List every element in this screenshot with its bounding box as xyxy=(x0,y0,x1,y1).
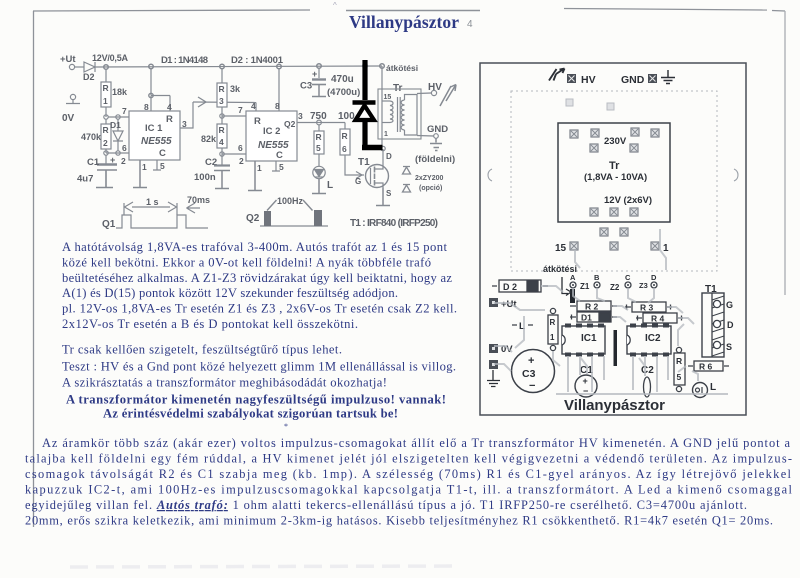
svg-text:T1 : IRF840 (IRFP250): T1 : IRF840 (IRFP250) xyxy=(350,218,438,229)
ground symbol top xyxy=(661,70,675,84)
svg-text:A(1) és D(15) pontok között 12: A(1) és D(15) pontok között 12V szekunde… xyxy=(62,286,398,300)
svg-text:D 2: D 2 xyxy=(503,282,517,292)
svg-text:L: L xyxy=(327,180,333,191)
svg-text:D1 : 1N4148: D1 : 1N4148 xyxy=(161,55,208,66)
svg-text:12V/0,5A: 12V/0,5A xyxy=(92,53,129,63)
svg-text:+: + xyxy=(583,376,588,386)
svg-text:(földelni): (földelni) xyxy=(415,154,455,165)
LED L xyxy=(318,154,320,166)
svg-text:3: 3 xyxy=(219,96,224,106)
svg-text:R: R xyxy=(550,318,556,327)
svg-text:NE555: NE555 xyxy=(141,136,172,147)
svg-text:+: + xyxy=(528,355,534,367)
svg-text:GND: GND xyxy=(621,74,645,86)
pin 1 ground IC1 xyxy=(133,160,147,188)
svg-text:R: R xyxy=(219,84,225,94)
capacitor C1 xyxy=(105,155,107,164)
svg-text:3: 3 xyxy=(298,111,303,121)
svg-text:82k: 82k xyxy=(201,134,217,144)
svg-text:15: 15 xyxy=(555,243,567,254)
svg-text:+Ut: +Ut xyxy=(501,299,517,310)
svg-text:R: R xyxy=(219,125,225,135)
svg-text:12V (2x6V): 12V (2x6V) xyxy=(604,195,652,206)
diode hand-drawn annotation xyxy=(353,60,383,148)
svg-text:6: 6 xyxy=(122,143,127,153)
svg-text:R: R xyxy=(166,114,173,125)
svg-text:0V: 0V xyxy=(62,113,75,124)
transformer Tr footprint xyxy=(558,123,670,222)
wire jumper between ICs xyxy=(614,330,618,366)
svg-text:D: D xyxy=(651,273,657,282)
svg-text:100: 100 xyxy=(338,111,355,122)
PCB board outline xyxy=(480,63,746,415)
svg-text:2: 2 xyxy=(239,156,244,166)
svg-text:csomagok távolságát R2 és C1 s: csomagok távolságát R2 és C1 szabja meg … xyxy=(25,467,792,481)
svg-text:Villanypásztor: Villanypásztor xyxy=(349,12,459,32)
svg-text:pl. 12V-os 1,8VA-es Tr esetén: pl. 12V-os 1,8VA-es Tr esetén Z1 és Z3 ,… xyxy=(62,302,457,316)
svg-text:A hatótávolság 1,8VA-es trafóv: A hatótávolság 1,8VA-es trafóval 3-400m.… xyxy=(62,240,448,254)
svg-text:beültetéséhez alkalmas. A Z1-: beültetéséhez alkalmas. A Z1-Z3 rövidzár… xyxy=(62,271,452,285)
node between R3/R4 xyxy=(221,107,223,124)
svg-text:C1: C1 xyxy=(87,157,100,168)
pin 5 stub IC2 xyxy=(272,161,280,171)
svg-text:D1: D1 xyxy=(581,313,592,323)
svg-text:C3: C3 xyxy=(300,81,312,92)
svg-text:4u7: 4u7 xyxy=(77,174,93,185)
resistor R5 footprint xyxy=(676,347,681,352)
svg-text:Az érintésvédelmi szabályokat: Az érintésvédelmi szabályokat szigorúan … xyxy=(103,407,398,421)
ground under LED xyxy=(312,179,326,194)
wire +V rail xyxy=(95,66,382,67)
svg-text:T1: T1 xyxy=(358,157,370,168)
svg-text:R 4: R 4 xyxy=(651,314,665,324)
svg-text:470k: 470k xyxy=(81,132,102,142)
svg-text:6: 6 xyxy=(342,144,347,154)
svg-text:S: S xyxy=(386,189,392,198)
svg-text:1: 1 xyxy=(103,96,108,106)
svg-text:7: 7 xyxy=(238,105,243,115)
node rail junctions xyxy=(104,65,109,70)
svg-text:C: C xyxy=(276,150,283,161)
svg-text:C: C xyxy=(625,273,631,282)
svg-text:A transzformátor kimenetén nag: A transzformátor kimenetén nagyfeszültsé… xyxy=(66,393,446,407)
traces xyxy=(494,229,728,394)
wire T1 source to ground xyxy=(376,188,390,206)
svg-text:HV: HV xyxy=(581,74,596,86)
resistor R3 footprint xyxy=(632,302,666,312)
svg-text:R 3: R 3 xyxy=(640,303,654,313)
node pin6 IC2 junction xyxy=(221,148,223,165)
svg-text:+: + xyxy=(110,155,115,165)
op-amp IC1 NE555 xyxy=(151,68,170,111)
svg-text:Tr csak kellően szigetelt, fes: Tr csak kellően szigetelt, feszültségtűr… xyxy=(62,343,342,357)
svg-text:R: R xyxy=(342,131,348,141)
pad Tr pins xyxy=(570,128,659,250)
jumper wire A xyxy=(570,289,575,303)
op-amp IC2 NE555 xyxy=(256,68,279,111)
resistor R2 xyxy=(105,119,107,124)
svg-text:4: 4 xyxy=(219,137,224,147)
svg-text:G: G xyxy=(726,300,733,310)
diode D2 footprint xyxy=(499,280,541,292)
svg-text:^: ^ xyxy=(333,1,337,10)
svg-text:5: 5 xyxy=(279,162,284,172)
resistor R3 xyxy=(221,68,223,83)
pad spare top xyxy=(566,99,573,106)
svg-text:+Ut: +Ut xyxy=(60,54,76,65)
op-amp IC2 footprint xyxy=(627,326,671,354)
svg-text:A: A xyxy=(570,273,576,282)
svg-text:*: * xyxy=(284,422,288,431)
pad 0V xyxy=(489,344,498,353)
svg-text:D: D xyxy=(727,320,734,330)
svg-text:D: D xyxy=(386,152,392,161)
svg-text:Z3: Z3 xyxy=(639,281,648,290)
wire IC1.3 to R3 with arrow xyxy=(193,101,256,104)
pad earth xyxy=(489,360,498,369)
svg-text:R: R xyxy=(103,125,109,135)
svg-text:70ms: 70ms xyxy=(187,195,210,205)
zener Z diodes optional xyxy=(403,167,411,175)
ground symbol bottom xyxy=(487,370,500,387)
svg-text:Q2: Q2 xyxy=(246,213,260,224)
svg-text:(1,8VA - 10VA): (1,8VA - 10VA) xyxy=(584,172,647,183)
node HV output xyxy=(417,92,431,95)
resistor R2 footprint xyxy=(577,301,611,311)
svg-text:kapuzzuk IC2-t, ami 100Hz-es i: kapuzzuk IC2-t, ami 100Hz-es impulzuscso… xyxy=(25,483,793,497)
svg-text:Q1: Q1 xyxy=(102,219,116,230)
svg-text:IC 1: IC 1 xyxy=(145,123,163,134)
svg-text:Q2: Q2 xyxy=(284,119,296,129)
mounting hole left xyxy=(488,169,492,181)
ground 0V terminal xyxy=(70,94,75,99)
svg-text:B: B xyxy=(594,273,600,282)
svg-text:5: 5 xyxy=(677,372,682,382)
ground GND output xyxy=(417,135,434,138)
svg-text:D2: D2 xyxy=(83,72,95,82)
svg-text:Az áramkör több száz (akár eze: Az áramkör több száz (akár ezer) voltos … xyxy=(42,436,791,450)
svg-text:5: 5 xyxy=(160,161,165,171)
faint cut-off line at page bottom xyxy=(70,566,460,567)
svg-text:közé kell bekötni. Ekkor a 0V-: közé kell bekötni. Ekkor a 0V-ot kell fö… xyxy=(62,256,431,270)
svg-text:1: 1 xyxy=(257,163,262,173)
pin 5 stub IC1 xyxy=(153,160,161,170)
svg-text:100n: 100n xyxy=(194,172,216,183)
pad +Ut xyxy=(489,298,498,307)
svg-text:Z2: Z2 xyxy=(610,283,620,292)
svg-text:(4700u): (4700u) xyxy=(327,87,360,98)
svg-text:G: G xyxy=(355,177,361,186)
svg-text:R: R xyxy=(103,83,109,93)
mounting hole right xyxy=(734,169,738,181)
wire R6 to gate xyxy=(345,155,364,175)
resistor R1 footprint xyxy=(550,308,555,313)
svg-text:L: L xyxy=(710,382,716,393)
svg-text:IC 2: IC 2 xyxy=(263,126,280,137)
svg-text:C2: C2 xyxy=(641,365,654,376)
svg-text:2: 2 xyxy=(121,156,126,166)
svg-text:NE555: NE555 xyxy=(258,140,289,151)
svg-text:6: 6 xyxy=(238,143,243,153)
svg-text:7: 7 xyxy=(122,106,127,116)
svg-text:Teszt : HV és a Gnd pont közé: Teszt : HV és a Gnd pont közé helyezett … xyxy=(62,360,456,374)
svg-text:750: 750 xyxy=(310,111,327,122)
svg-text:18k: 18k xyxy=(112,87,128,97)
wire xyxy=(105,107,107,117)
pin 1 ground IC2 xyxy=(248,161,262,191)
svg-text:S: S xyxy=(726,342,732,352)
svg-text:100Hz: 100Hz xyxy=(277,196,304,206)
arrow to A xyxy=(562,277,571,296)
pad HV xyxy=(567,74,576,83)
node +Ut input terminal xyxy=(69,64,74,69)
svg-text:20mm, erős szikra keletkezik,: 20mm, erős szikra keletkezik, ami minimu… xyxy=(25,514,773,528)
svg-text:470u: 470u xyxy=(331,74,354,85)
svg-text:230V: 230V xyxy=(604,136,627,147)
capacitor C3 footprint xyxy=(512,350,555,393)
svg-text:2: 2 xyxy=(103,138,108,148)
svg-text:15: 15 xyxy=(384,94,392,101)
svg-text:Tr: Tr xyxy=(609,160,620,172)
svg-text:8: 8 xyxy=(275,101,280,111)
svg-text:4: 4 xyxy=(467,19,473,30)
trace outline dashed xyxy=(511,91,717,271)
svg-text:Z1: Z1 xyxy=(580,282,590,291)
resistor R4 footprint xyxy=(643,313,677,323)
svg-text:HV: HV xyxy=(428,82,442,93)
svg-text:R: R xyxy=(254,116,261,127)
svg-text:átkötési: átkötési xyxy=(386,63,418,73)
svg-text:2x12V-os Tr esetén a B és D p: 2x12V-os Tr esetén a B és D pontokat kel… xyxy=(62,317,358,331)
svg-text:1: 1 xyxy=(550,333,555,342)
svg-text:−: − xyxy=(529,380,535,392)
wire xyxy=(75,66,84,68)
ground under C1 xyxy=(96,170,113,188)
svg-text:3k: 3k xyxy=(230,84,241,94)
svg-text:C3: C3 xyxy=(522,368,536,380)
svg-text:GND: GND xyxy=(427,124,448,135)
node T1 drain xyxy=(382,149,384,165)
svg-text:IC2: IC2 xyxy=(645,333,661,344)
svg-text:egyidejűleg villan fel. Autós: egyidejűleg villan fel. Autós trafó: 1 o… xyxy=(25,498,747,512)
resistor R1 xyxy=(105,69,107,82)
svg-text:R 6: R 6 xyxy=(699,362,713,372)
diode D1 xyxy=(113,119,123,151)
svg-text:IC1: IC1 xyxy=(581,333,597,344)
svg-text:1: 1 xyxy=(142,162,147,172)
svg-text:Villanypásztor: Villanypásztor xyxy=(564,397,665,414)
svg-text:1: 1 xyxy=(384,131,388,138)
svg-text:2xZY200: 2xZY200 xyxy=(415,175,444,182)
svg-text:1: 1 xyxy=(663,243,669,254)
node pin7 junction xyxy=(104,115,108,119)
svg-text:1 s: 1 s xyxy=(146,197,159,207)
spark symbol xyxy=(440,85,456,107)
LED L footprint xyxy=(693,383,708,398)
diode D1 footprint xyxy=(577,312,611,322)
resistor R4 xyxy=(217,124,227,148)
svg-text:D1: D1 xyxy=(110,120,121,130)
svg-text:R: R xyxy=(316,132,322,142)
svg-text:(opció): (opció) xyxy=(419,185,442,192)
svg-text:D2 : 1N4001: D2 : 1N4001 xyxy=(231,55,284,66)
op-amp IC1 footprint xyxy=(562,326,605,354)
diode D2 xyxy=(84,62,95,72)
svg-text:R: R xyxy=(676,356,682,366)
ground under C2 xyxy=(215,171,229,189)
svg-text:A szikrásztatás a transzformát: A szikrásztatás a transzformátor meghibá… xyxy=(62,376,387,390)
node pin6 junction xyxy=(106,149,129,153)
capacitor C3 xyxy=(318,68,320,78)
spark symbol xyxy=(549,69,565,81)
svg-text:R 2: R 2 xyxy=(585,302,599,312)
svg-text:C: C xyxy=(159,148,166,159)
svg-text:4: 4 xyxy=(251,101,256,111)
svg-text:5: 5 xyxy=(316,143,321,153)
svg-text:+: + xyxy=(312,69,317,79)
resistor R6 footprint xyxy=(694,361,723,371)
